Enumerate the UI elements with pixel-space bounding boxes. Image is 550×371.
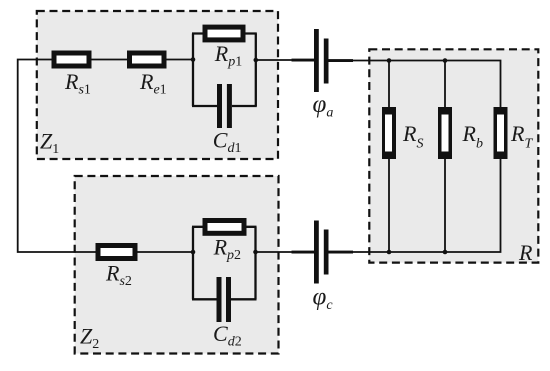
- node D (junction right of Rp2 loop): [253, 250, 258, 255]
- dashed box R (resistance network): [369, 49, 538, 262]
- node B (junction right of Rp1 loop): [254, 58, 259, 63]
- wire node D to battery phi_c: [256, 251, 294, 253]
- dashed box Z2 (cathode impedance): [75, 176, 279, 354]
- node G (bottom rail at RS): [387, 250, 392, 255]
- capacitor Cd2: [217, 277, 232, 322]
- wire parallel loop Z2 (Rp2/Cd2 frame): [192, 227, 257, 299]
- wire node B to battery phi_a: [256, 59, 294, 61]
- resistor Rs2: [96, 243, 138, 261]
- wire Rs2 to node C: [137, 251, 193, 253]
- wire Re1 to node A: [166, 59, 193, 61]
- resistor RT: [494, 107, 508, 159]
- resistor Rs1: [52, 51, 92, 69]
- battery phi_c: [292, 221, 354, 284]
- node C (junction left of Rp2 loop): [191, 250, 196, 255]
- resistor Rp1: [203, 25, 246, 43]
- svg-text:R: R: [518, 240, 533, 265]
- resistor RS: [382, 107, 396, 159]
- battery phi_a: [292, 29, 354, 92]
- wire Rb bottom lead: [444, 159, 446, 252]
- wire RS bottom lead: [388, 159, 390, 252]
- wire battery phi_a to R box top rail: [353, 61, 501, 108]
- node E (top rail at RS): [387, 58, 392, 63]
- wire parallel loop Z1 (Rp1/Cd1 frame): [192, 34, 257, 107]
- node A (junction left of Rp1 loop): [191, 57, 196, 62]
- capacitor Cd1: [217, 84, 232, 128]
- node H (bottom rail at Rb): [443, 250, 448, 255]
- resistor Rb: [438, 107, 452, 159]
- resistor Rp2: [203, 218, 247, 236]
- wire left loop (Z1 input down to Z2 input): [18, 60, 96, 253]
- wire bottom rail of R box to battery phi_c: [353, 159, 501, 252]
- resistor Re1: [127, 51, 167, 69]
- dashed box Z1 (anode impedance): [37, 11, 278, 159]
- wire RS top lead: [388, 61, 390, 108]
- wire Rs1 to Re1: [91, 59, 128, 61]
- wire Rb top lead: [444, 61, 446, 108]
- node F (top rail at Rb): [443, 58, 448, 63]
